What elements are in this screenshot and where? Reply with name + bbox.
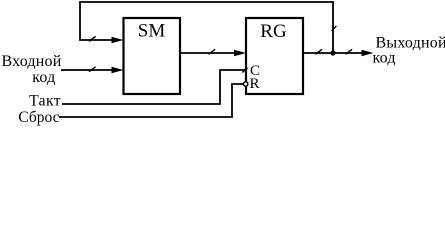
svg-text:SM: SM — [138, 21, 166, 42]
arrowhead input code — [112, 67, 124, 73]
wire reset: Sbros to R input — [59, 84, 243, 117]
bus slash SM-RG — [209, 49, 216, 54]
wire feedback: junction up, across top, down left, into SM — [80, 2, 333, 51]
inversion bubble at R — [244, 82, 248, 86]
bus slash input code — [89, 67, 96, 72]
arrowhead output — [362, 50, 374, 56]
svg-text:Такт: Такт — [29, 93, 61, 110]
svg-text:R: R — [250, 76, 260, 92]
bus slash on feedback vertical — [332, 26, 337, 31]
svg-text:Сброс: Сброс — [18, 109, 59, 126]
bus slash on feedback horizontal — [89, 36, 96, 41]
block RG — [246, 18, 303, 94]
svg-text:код: код — [32, 69, 55, 86]
wire RG output to arrow right — [303, 52, 362, 54]
arrowhead into SM (feedback) — [112, 37, 124, 43]
dynamic input slash at C — [242, 68, 247, 73]
arrowhead into RG — [234, 50, 246, 56]
junction node — [330, 50, 335, 55]
bus slash output before junction — [315, 49, 322, 54]
svg-text:RG: RG — [260, 21, 287, 42]
wire input code into SM — [61, 69, 113, 71]
svg-text:Входной: Входной — [1, 53, 61, 70]
block SM — [124, 18, 181, 94]
wire clock: Takt to C input — [62, 70, 246, 104]
wire SM to RG — [180, 52, 235, 54]
svg-text:код: код — [373, 50, 396, 67]
bus slash output after junction — [346, 49, 353, 54]
